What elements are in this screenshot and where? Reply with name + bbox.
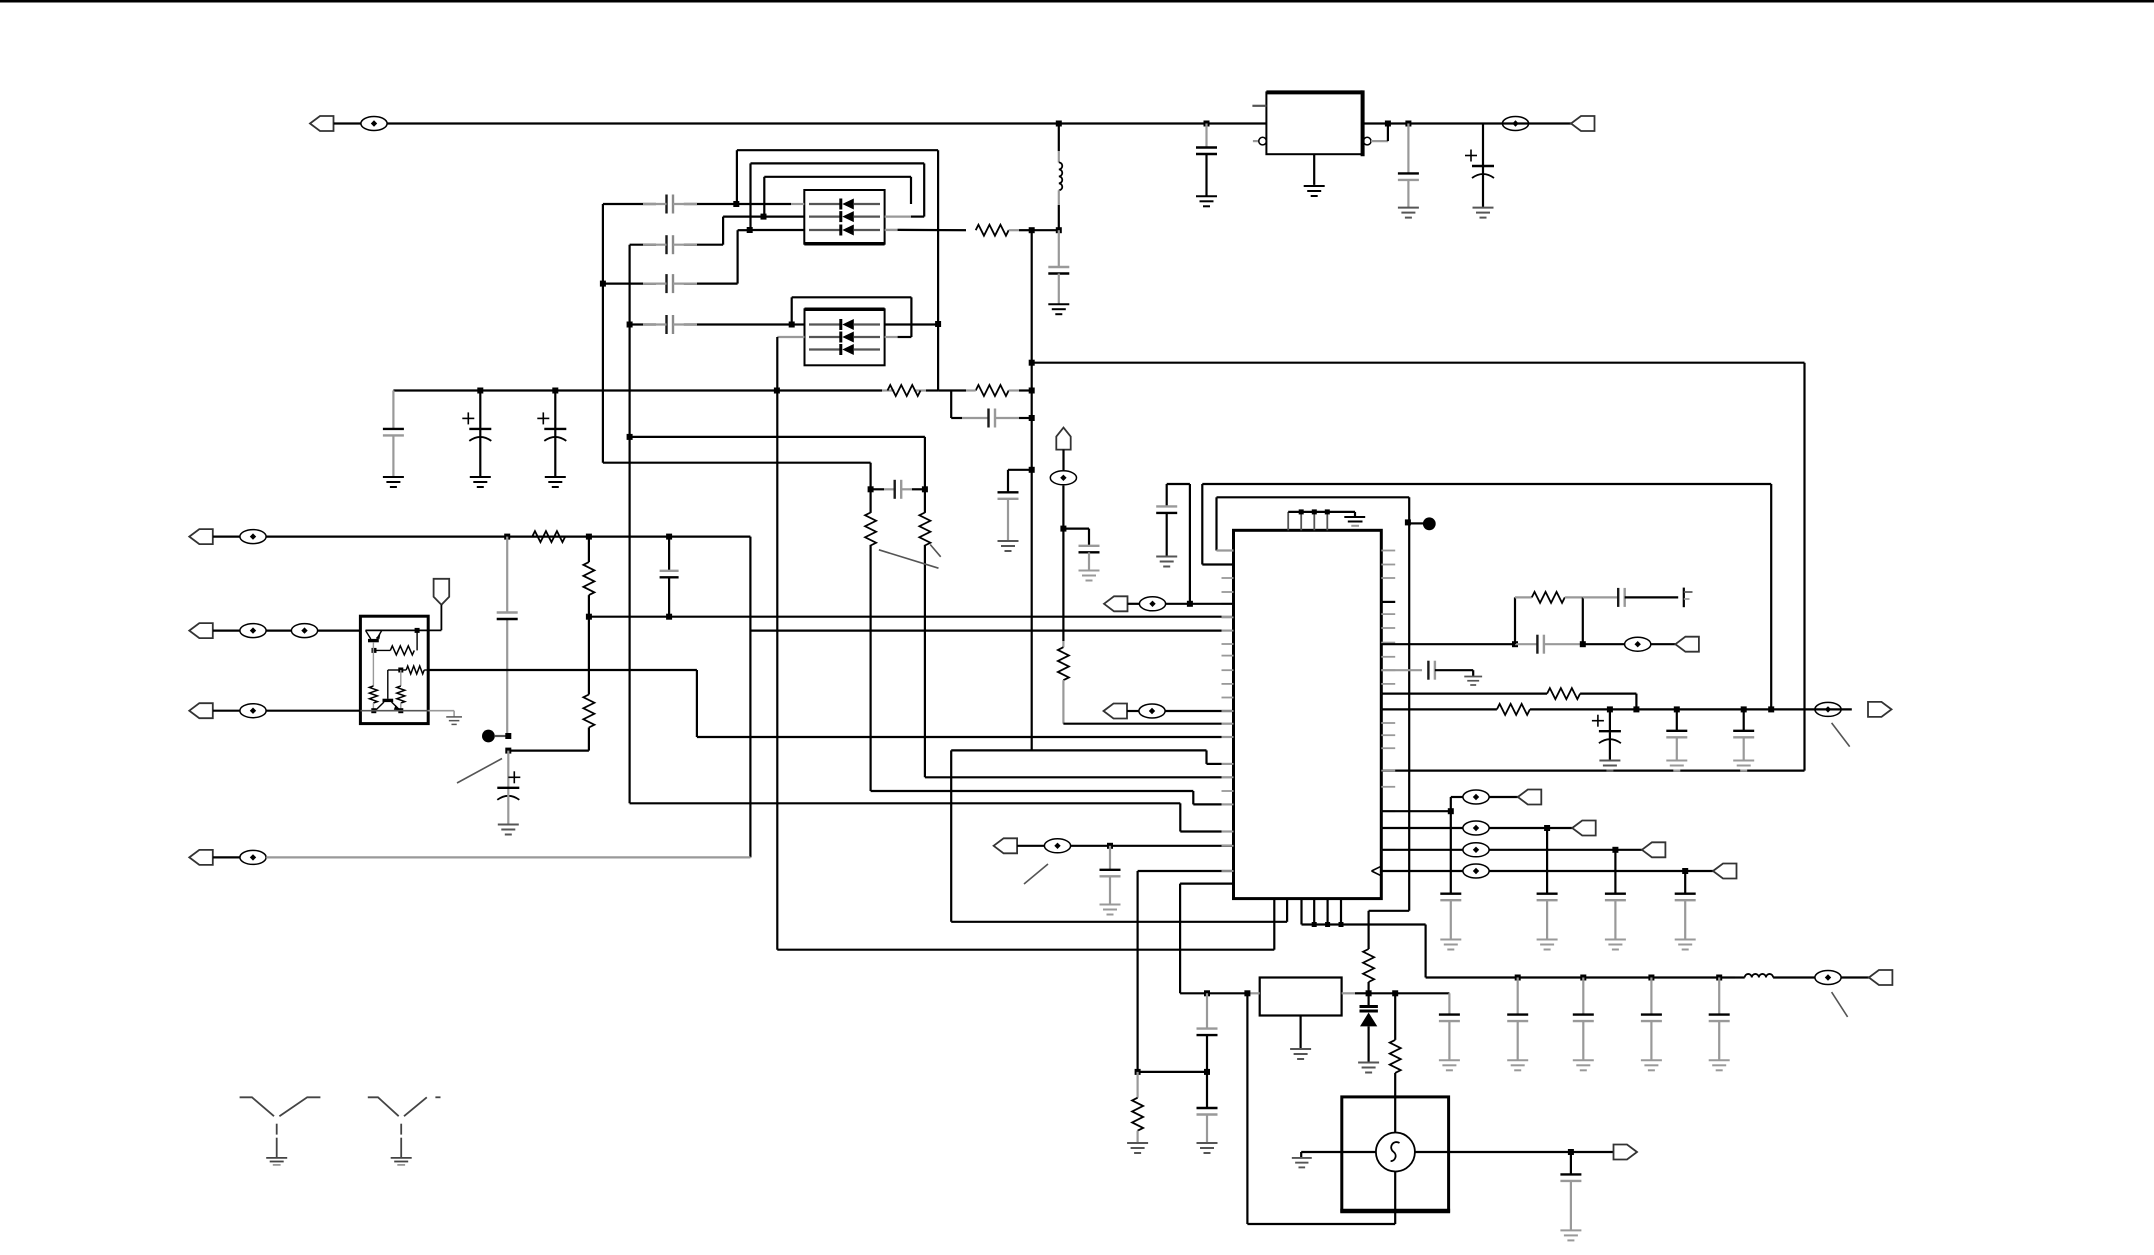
node c3j: [552, 388, 558, 394]
capacitor C-1207b: [1197, 1107, 1218, 1109]
resistor R-588a: [583, 562, 594, 595]
node v709-1: [1607, 706, 1613, 712]
wire staircase to IC pin 737.5: [696, 670, 698, 737]
wire left vertical x=629.6: [628, 245, 630, 804]
wire bead row1 pin811: [1381, 810, 1451, 812]
diode D2-3: [809, 348, 841, 350]
wire row4 gray line: [266, 856, 750, 858]
wire: [1489, 870, 1713, 872]
wire D2 row1 right to node: [885, 323, 939, 325]
node mid1: [1107, 843, 1113, 849]
wire row1 line: [266, 535, 750, 537]
bead FB-br3: [1463, 843, 1489, 857]
bead FB-row2b: [266, 629, 292, 631]
wire bead row2 pin828: [1381, 827, 1463, 829]
bead FB-br4: [1463, 864, 1489, 878]
node reg2-in1: [1204, 990, 1210, 996]
node reg-out1: [1385, 121, 1391, 127]
wire D2 loop: [792, 296, 912, 298]
wire IC pin 883.6 to regulator2: [1180, 882, 1233, 884]
diode array D1 box: [804, 190, 884, 244]
wire loop B right vertical: [1408, 497, 1410, 911]
bead FB-rc: [1625, 637, 1651, 651]
resistor R-1137: [1136, 1072, 1138, 1098]
connector J-mid1: [994, 838, 1018, 853]
node Cc-r: [922, 486, 928, 492]
node q2b: [398, 668, 403, 673]
capacitor C-osc: [1570, 1152, 1572, 1174]
ground C-pw2: [1573, 1060, 1594, 1070]
capacitor C-reg2out: [1448, 993, 1450, 1014]
ground C-f2: [470, 477, 491, 487]
capacitor C-rail2: [1407, 124, 1409, 174]
node x1137: [1135, 1069, 1141, 1075]
bead FB-pw: [1815, 971, 1841, 985]
annotation slash A: [879, 550, 939, 568]
ground C709b: [1666, 761, 1687, 771]
resistor R-row3 (diode box output): [886, 229, 966, 232]
annotation slash pw: [1832, 992, 1848, 1017]
connector J-mid2: [1104, 704, 1128, 719]
bead FB-mid1: [1017, 845, 1044, 847]
wire R-q3 output line: [428, 669, 697, 671]
wire IC right pin 602 stub: [1381, 601, 1395, 603]
connector J-osc right-pointing: [1614, 1145, 1638, 1160]
wire x629 corner to IC pin 831.5: [630, 802, 1181, 804]
wire x=870.6 vertical: [869, 463, 871, 513]
wire to small ground: [428, 710, 454, 712]
node ic1: [1187, 601, 1193, 607]
wire x=1032 to IC pin 763.9: [951, 749, 1206, 751]
node loopC: [1029, 360, 1035, 366]
capacitor C-pw4: [1718, 978, 1720, 1015]
ground C-f1: [383, 477, 404, 487]
resistor R-d: [919, 513, 930, 546]
oscillator circle: [1376, 1133, 1415, 1172]
ground ANT2: [391, 1158, 412, 1162]
wire y=949.7 bottom line: [777, 949, 1274, 951]
node br3: [1612, 847, 1618, 853]
connector J-ic1: [1104, 596, 1128, 611]
capacitor C-L1: [1058, 230, 1060, 267]
connector J-top-left: [310, 116, 334, 131]
capacitor C-f3 electrolytic: [554, 391, 556, 429]
wire gray cap leads overdraw: [643, 203, 667, 205]
capacitor C-f2 electrolytic: [479, 391, 481, 429]
bead FB-up: [1062, 450, 1064, 470]
ground R-1137: [1127, 1143, 1148, 1153]
connector J-row2: [189, 623, 213, 638]
wire cap1 line row1: [603, 203, 656, 205]
bead FB-br2: [1463, 821, 1489, 835]
ground C-x1008: [998, 541, 1019, 551]
diode D1-3: [809, 229, 841, 231]
ground under C-rail3: [1473, 208, 1494, 218]
node pw2: [1580, 975, 1586, 981]
ground D-z: [1358, 1063, 1379, 1073]
bead FB-709: [1815, 702, 1841, 716]
capacitor C-pw1: [1517, 978, 1519, 1015]
wire Q1 collector line: [366, 629, 442, 631]
node q-rail2: [398, 708, 403, 713]
wire x=1137 junction line: [1138, 1071, 1207, 1073]
transistor Q1b: [387, 670, 389, 699]
ground C-pw1: [1507, 1060, 1528, 1070]
resistor R-flag: [1062, 529, 1064, 641]
wire cap4 line row1 D2: [630, 323, 656, 325]
ground ANT1: [266, 1158, 287, 1162]
wire osc internal vertical: [1394, 1097, 1396, 1133]
connector flag-up: [1056, 428, 1070, 450]
node D1 row3 left: [747, 227, 753, 233]
wire cap-L link: [1189, 484, 1191, 604]
node rail-L1: [1056, 121, 1062, 127]
wire y=770.6 return line: [1381, 769, 1804, 771]
ground IC1: [1304, 186, 1325, 196]
node v709-5: [1768, 706, 1774, 712]
node reg2-in2: [1244, 990, 1250, 996]
wire mid1 to IC: [1071, 845, 1234, 847]
capacitor C-pw3: [1650, 978, 1652, 1015]
wire pin670 cap-gnd: [1381, 669, 1422, 671]
wire to IC pin 723.7: [1063, 723, 1221, 725]
capacitor C-rail3 electrolytic: [1482, 124, 1484, 167]
capacitor C-f1: [392, 391, 394, 429]
ground under C-rail2: [1398, 208, 1419, 218]
wire mid2 to IC: [1165, 710, 1233, 712]
wire: [1489, 849, 1642, 851]
node osc-out: [1568, 1149, 1574, 1155]
inductor L2: [1745, 974, 1773, 978]
capacitor C-rc2 to chassis: [1583, 596, 1618, 598]
node bp-b: [1325, 922, 1330, 927]
ground C-br2: [1537, 940, 1558, 950]
node tp-a: [1299, 509, 1304, 514]
connector J-br3: [1642, 842, 1666, 857]
wire rc to bead: [1583, 643, 1625, 645]
reg2 GND pin: [1299, 1016, 1301, 1049]
node v709-3: [1674, 706, 1680, 712]
node row1-b: [586, 534, 592, 540]
wire D1 loop3: [764, 176, 911, 178]
node cap3 left: [600, 281, 606, 287]
ground osc-left: [1292, 1158, 1312, 1168]
wire y=390.5 line: [393, 389, 882, 391]
wire row3 to Q-box: [266, 710, 360, 712]
connector J-br4: [1713, 864, 1737, 879]
wire y=616.7 line: [589, 616, 1222, 618]
capacitor C-row2: [665, 235, 667, 254]
wire loop B (y=497.3): [1217, 496, 1410, 498]
ground C-br1: [1440, 940, 1461, 950]
resistor R-osc: [1394, 993, 1396, 1040]
flag connector down: [434, 579, 450, 605]
capacitor C-br4: [1684, 871, 1686, 894]
capacitor C-rc: [1515, 643, 1537, 645]
node br1: [1448, 808, 1454, 814]
capacitor C-1089: [1079, 545, 1100, 547]
wire cap2 line: [722, 217, 724, 245]
connector J-rc: [1675, 637, 1699, 652]
IC1 GND pin: [1313, 154, 1315, 185]
node cap4 left: [627, 322, 633, 328]
wire osc right output: [1415, 1151, 1571, 1153]
wire y=977.5 power line: [1426, 976, 1735, 978]
wire osc left ground: [1301, 1151, 1342, 1153]
ground pin rail: [1354, 512, 1356, 517]
oscillator X1 box: [1342, 1097, 1449, 1211]
wire D2 row2 left stub: [777, 336, 804, 338]
wire y=777.3 line to IC: [925, 776, 1210, 778]
wire x=1137.6 vertical from IC pin 871: [1138, 870, 1234, 872]
wire reg2 out to right: [1369, 992, 1450, 994]
ferrite bead FB-top-left: [334, 122, 361, 124]
node tp1: [505, 733, 511, 739]
diode array D2 box: [805, 309, 885, 365]
bead FB-row2a: [213, 629, 241, 631]
regulator IC1 box: [1266, 92, 1362, 154]
node q1c: [415, 628, 420, 633]
diode D2-2: [809, 336, 841, 338]
wire x=508 vertical: [506, 537, 508, 613]
node row1-c: [666, 534, 672, 540]
diode D1-2: [809, 216, 841, 218]
wire y=791 line to IC: [871, 790, 1194, 792]
wire osc internal left: [1342, 1151, 1376, 1153]
node L1-bottom: [1056, 227, 1062, 233]
page top border bar: [0, 0, 2154, 3]
ground under C-L1: [1048, 304, 1069, 314]
IC input arrow pin: [1372, 866, 1382, 871]
diode D1-1: [809, 203, 841, 205]
node osc-top: [1392, 990, 1398, 996]
IC1 pin stub top-left: [1252, 105, 1266, 107]
node D1 row2 left: [761, 214, 767, 220]
test point dot TP1: [482, 730, 495, 743]
capacitor C-709b: [1676, 709, 1678, 730]
node tp2: [505, 748, 511, 754]
capacitor C-508: [497, 611, 518, 613]
ground C-pw3: [1641, 1060, 1662, 1070]
wire cap3 line: [736, 230, 738, 283]
bead FB-row3: [213, 710, 241, 712]
ground pin670: [1464, 677, 1482, 686]
wire loop A (y=484): [1202, 483, 1771, 485]
wire Rb-Cb link: [950, 391, 952, 419]
ground C-br3: [1605, 940, 1626, 950]
node br2: [1544, 825, 1550, 831]
wire pin709 line: [1381, 708, 1497, 710]
node Cc-l: [868, 486, 874, 492]
resistor R-q3 horizontal: [406, 666, 424, 674]
node x1032-469: [1029, 467, 1035, 473]
annotation slash mid1: [1024, 864, 1048, 884]
resistor R-q4 vertical: [400, 670, 402, 686]
resistor R-a: [888, 385, 921, 396]
transistor Q1a: [368, 639, 379, 642]
wire stub to C-x1008: [1008, 469, 1032, 471]
antenna ANT1: [240, 1097, 321, 1158]
IC U1 right pin stubs: [1381, 550, 1395, 552]
wire y=462.7 line: [603, 462, 871, 464]
wire D1 loop right sides: [937, 150, 939, 390]
wire to connector: [1651, 643, 1676, 645]
ground C-508e: [498, 825, 519, 835]
wire y=436.9 line: [630, 436, 925, 438]
node y437: [627, 434, 633, 440]
node q-rail1: [371, 708, 376, 713]
capacitor C-rail1: [1205, 124, 1207, 148]
diode D2-1: [809, 323, 841, 325]
node rc-r: [1580, 641, 1586, 647]
wire loop A right vertical: [1770, 484, 1772, 709]
ground C-1207b: [1197, 1143, 1218, 1153]
wire bead row3 pin850: [1381, 849, 1463, 851]
node D2 row1 left: [789, 322, 795, 328]
node bp-c: [1339, 922, 1344, 927]
IC U1 bottom pins: [1273, 899, 1275, 950]
wire: [1489, 827, 1573, 829]
wire bottom pin rail: [1302, 923, 1426, 925]
wire x=1032 long vertical: [1031, 230, 1033, 750]
capacitor C-x1008: [998, 491, 1019, 493]
wire pin642 line RC network: [1381, 643, 1515, 645]
wire row2 to Q-box: [317, 629, 360, 631]
node loopB-dot: [1405, 519, 1411, 525]
IC1 pin circle right: [1363, 137, 1371, 145]
resistor R-588b: [583, 695, 594, 728]
node v709-4: [1741, 706, 1747, 712]
resistor R-q1 horizontal: [416, 630, 418, 650]
wire left vertical x=603: [602, 204, 604, 463]
connector J-row3: [189, 703, 213, 718]
IC U1 left pin stubs: [1222, 550, 1234, 552]
ground C-f3: [545, 477, 566, 487]
wire to connector: [1571, 1151, 1614, 1153]
connector J-pw: [1869, 970, 1893, 985]
wire top pin rail: [1288, 511, 1355, 513]
node y617-669: [666, 614, 672, 620]
ground C709c: [1733, 761, 1754, 771]
node c2j: [477, 388, 483, 394]
bead FB-mid2: [1127, 710, 1140, 712]
bead FB-ic1: [1128, 603, 1140, 605]
wire reg2 input line: [1180, 992, 1247, 994]
wire reg2 out stub: [1342, 992, 1355, 994]
capacitor C-508e electrolytic: [507, 751, 509, 788]
wire D1 outer loop: [737, 149, 938, 151]
bead FB-br1: [1463, 790, 1489, 804]
wire y=630.6 line to IC: [750, 629, 1221, 631]
capacitor C-row3: [665, 274, 667, 293]
connector J-row4: [189, 850, 213, 865]
wire loopB resistor: [1363, 949, 1374, 982]
node reg-out2: [1405, 121, 1411, 127]
wire pin694 resistor upper: [1381, 692, 1547, 694]
bead FB-row1: [213, 535, 241, 537]
connector J-br2: [1572, 821, 1596, 836]
ground C-pw4: [1709, 1060, 1730, 1070]
wire: [1489, 796, 1518, 798]
capacitor C-709c: [1743, 709, 1745, 730]
ground reg2: [1290, 1049, 1311, 1059]
capacitor C-1207a: [1206, 993, 1208, 1028]
ground under C-rail1: [1196, 196, 1217, 206]
capacitor C-row4: [665, 315, 667, 334]
node tp-c: [1325, 509, 1330, 514]
ground C-reg2out: [1439, 1060, 1460, 1070]
diode D-z zener: [1367, 993, 1369, 1005]
node Rb-right: [1029, 388, 1035, 394]
regulator IC2 box: [1260, 978, 1342, 1016]
ground C-topL: [1156, 557, 1177, 567]
node q1b: [372, 648, 377, 653]
ground C-br4: [1675, 940, 1696, 950]
wire y=921.8 line: [950, 750, 952, 921]
wire jog x=750.4: [749, 537, 751, 858]
antenna ANT2: [368, 1097, 441, 1158]
node Cb-right: [1029, 415, 1035, 421]
connector J-top-right: [1571, 116, 1595, 131]
resistor R-c: [865, 513, 876, 546]
wire flag column: [1062, 486, 1064, 529]
wire row2 to box: [764, 216, 805, 218]
capacitor C-topL: [1156, 505, 1177, 507]
ground C709a: [1599, 761, 1620, 771]
node x777-top: [774, 388, 780, 394]
wire branch to C-1089: [1063, 527, 1089, 529]
IC1 pin circle left: [1253, 140, 1259, 142]
wire row3 to box: [750, 229, 805, 231]
capacitor C-1110: [1109, 846, 1111, 870]
resistor R-q2 vertical: [372, 650, 374, 686]
capacitor C-br3: [1614, 850, 1616, 894]
bead FB-row4: [213, 856, 241, 858]
chassis ground: [1683, 588, 1685, 608]
wire D1 loop2: [751, 162, 925, 164]
annotation slash TP: [457, 759, 502, 784]
connector J-row1: [189, 529, 213, 544]
capacitor C-br1: [1450, 811, 1452, 894]
wire rail right: [1363, 122, 1571, 124]
node reg2-out: [1366, 990, 1372, 996]
ground C-osc: [1560, 1230, 1581, 1240]
node D1 row1 left: [733, 201, 739, 207]
wire rail-down right: [1424, 925, 1426, 978]
wire osc bottom loop: [1247, 1223, 1395, 1225]
connector J-709 right-pointing: [1868, 702, 1892, 717]
capacitor C-709a electrolytic: [1609, 709, 1611, 731]
node x1207b: [1204, 1069, 1210, 1075]
capacitor C-row1: [665, 195, 667, 214]
node pw4: [1716, 975, 1722, 981]
resistor R-row1: [532, 531, 565, 542]
IC U1 top pins: [1287, 512, 1289, 530]
inductor L1: [1058, 124, 1060, 152]
node pw3: [1648, 975, 1654, 981]
wire to IC pin 603.8: [1166, 603, 1234, 605]
node row1-a: [504, 534, 510, 540]
capacitor C-669: [668, 537, 670, 571]
node br4: [1682, 868, 1688, 874]
connector J-br1: [1518, 790, 1542, 805]
node rc-l: [1512, 641, 1518, 647]
transistor pack Q1 box: [360, 616, 428, 723]
IC U1 box: [1234, 530, 1382, 898]
capacitor C-b: [951, 417, 962, 419]
ground C-1110: [1100, 905, 1121, 915]
black dot BD1: [1410, 522, 1423, 524]
